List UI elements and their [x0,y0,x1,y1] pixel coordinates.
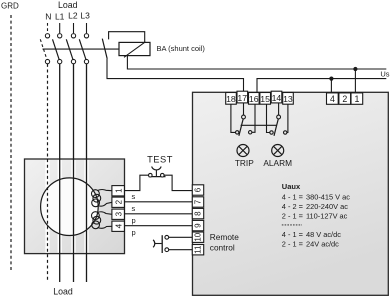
remote control bottom contact [165,248,169,252]
conductor casing L3 [84,160,88,253]
wire p1 to terminal 8 [124,213,192,215]
svg-text:BA (shunt coil): BA (shunt coil) [157,44,206,53]
svg-text:L3: L3 [80,10,90,20]
wire N supply stub (dashed) [47,23,49,33]
test button left contact [149,173,153,177]
terminal 14 [271,91,282,103]
wire test button to terminal 6 [164,175,192,190]
svg-text:7: 7 [194,199,203,204]
mechanical link between trip and alarm blades [241,124,277,126]
lead winding to CT terminal 2 [98,202,112,206]
svg-text:9: 9 [193,223,202,228]
wire trip blade to BA coil bracket [109,32,145,43]
terminal 18 [226,93,237,105]
test button right contact [161,173,165,177]
lamp TRIP [237,145,249,157]
lead winding to CT terminal 4 [98,226,112,228]
lamp ALARM [272,145,284,157]
svg-text:2 - 1 =24V ac/dc: 2 - 1 =24V ac/dc [282,240,339,249]
wire terminal 15 to alarm NC contact [267,104,270,132]
switch pole L2 top terminal [71,34,75,38]
terminal 16 [249,93,260,105]
svg-text:L2: L2 [68,10,78,20]
svg-text:N: N [45,12,51,22]
switch blade L1 [53,39,60,60]
alarm contact blade [274,119,278,136]
svg-text:L1: L1 [55,12,65,22]
conductor L2 through CT [73,64,75,282]
wire remote bottom to terminal 11 [169,249,193,251]
svg-text:p: p [132,216,136,225]
remote control actuator bar [161,235,163,253]
wire terminal 17 to trip common pivot [243,103,245,115]
svg-text:Us: Us [380,70,389,79]
svg-text:Load: Load [58,0,78,10]
svg-text:TEST: TEST [147,154,173,164]
wire L3 supply stub [86,23,88,33]
terminal 6 [192,185,203,195]
switch blade L2 [66,39,73,60]
coil BA (shunt coil) box [119,42,150,55]
secondary winding lower (p) [92,212,100,220]
Uaux separator [282,224,302,226]
svg-text:6: 6 [194,187,203,192]
conductor casing L2 [71,160,75,253]
terminal 10 [192,232,203,242]
CT terminal 4 [112,221,125,231]
wire terminal 16 riser to line B right [257,79,386,93]
wire remote top to terminal 10 [169,236,193,238]
trip auxiliary blade [102,39,107,59]
current transformer block [25,159,125,254]
svg-text:4 - 2 =220-240V ac: 4 - 2 =220-240V ac [282,202,348,211]
junction dot on line B above terminal 4 [329,77,333,81]
svg-text:13: 13 [283,94,293,104]
terminal 7 [192,197,203,207]
toroid core [41,178,99,236]
wire BA coil output to line A [127,56,386,69]
svg-text:2 - 1 =110-127V ac: 2 - 1 =110-127V ac [282,212,348,221]
svg-text:ALARM: ALARM [263,158,292,168]
switch pole L1 top terminal [58,34,62,38]
switch pole L3 bottom terminal [84,59,88,63]
CT terminal 3 [112,209,125,219]
svg-text:4: 4 [330,94,335,104]
trip contact blade [239,119,243,136]
svg-text:control: control [210,243,235,253]
switch pole L2 bottom terminal [71,59,75,63]
svg-text:s: s [132,204,136,213]
svg-text:3: 3 [115,211,124,216]
svg-text:s: s [132,192,136,201]
pivot circle alarm common [277,115,281,119]
svg-text:16: 16 [249,94,259,104]
conductor N through CT (dashed) [47,64,49,282]
wire terminal 14 to alarm common pivot [278,103,280,115]
wire terminal 18 to trip NC contact [231,104,236,132]
wire drop from line B to terminal 4 [330,79,332,94]
wire L1 supply stub [59,23,61,33]
svg-text:11: 11 [194,245,203,254]
remote control actuator bracket [153,240,155,248]
switch pole N bottom terminal [45,59,49,63]
wire terminal 16 to trip NO contact [252,104,255,132]
svg-text:2: 2 [342,94,347,104]
svg-text:15: 15 [260,94,270,104]
wire drop from line A to terminal 1 [354,69,356,94]
svg-text:10: 10 [194,232,203,241]
switch pole L3 top terminal [84,34,88,38]
contact circle alarm NC [270,131,273,134]
terminal 4 [327,93,339,104]
conductor L3 through CT [86,64,88,282]
svg-text:GRD: GRD [1,2,19,11]
terminal 2 [339,93,351,104]
svg-text:4 - 1 =380-415 V ac: 4 - 1 =380-415 V ac [282,192,350,201]
svg-text:4 - 1 =48 V ac/dc: 4 - 1 =48 V ac/dc [282,230,341,239]
svg-text:14: 14 [272,93,282,103]
CT terminal 1 [112,186,125,196]
terminal 8 [192,208,203,218]
svg-text:18: 18 [226,94,236,104]
secondary winding upper (s) [92,190,100,198]
switch blade L3 [79,39,86,60]
svg-text:Remote: Remote [210,232,239,242]
wire s2 to terminal 7 [124,201,192,203]
wire GRD dashed earth conductor [10,15,12,272]
residual current device body [193,92,389,295]
test button bridge [149,176,166,178]
coil BA diagonal [124,42,145,58]
wire trip blade bottom to terminal 17 (line B left) [107,59,244,92]
terminal 1 [351,93,363,104]
conductor casing N [45,160,49,253]
lead winding to CT terminal 3 [98,212,112,215]
wire terminal 13 to alarm NO contact [286,104,289,132]
wire s1 from CT to test button [124,175,148,190]
svg-text:TRIP: TRIP [235,158,254,168]
terminal 9 [192,220,203,230]
wire p2 to terminal 9 [124,225,192,227]
svg-text:8: 8 [193,211,202,216]
switch pole L1 bottom terminal [58,59,62,63]
svg-text:1: 1 [115,188,124,193]
conductor casing L1 [58,160,62,253]
test button stem [155,170,157,177]
wire L2 supply stub [73,23,75,33]
mechanical linkage line [43,48,120,50]
svg-text:1: 1 [354,94,359,104]
switch blade N (dashed) [40,39,47,60]
CT terminal 2 [112,197,125,207]
junction dot on line A above terminal 1 [353,67,357,71]
svg-text:2: 2 [115,199,124,204]
svg-text:p: p [132,228,136,237]
contact circle trip NC [236,131,239,134]
terminal 17 [237,91,248,103]
contact circle trip NO [249,131,252,134]
switch pole N top terminal [45,34,49,38]
terminal 13 [283,93,294,105]
svg-text:Uaux: Uaux [282,182,301,191]
pivot circle trip common [242,115,246,119]
lead winding to CT terminal 1 [98,189,112,190]
svg-text:Load: Load [53,287,73,297]
svg-text:17: 17 [237,93,247,103]
contact circle alarm NO [284,131,287,134]
conductor L1 through CT [59,64,61,282]
test button cap [152,167,162,170]
svg-text:4: 4 [115,223,124,228]
remote control top contact [165,235,169,239]
terminal 11 [192,245,203,255]
terminal 15 [260,93,271,105]
